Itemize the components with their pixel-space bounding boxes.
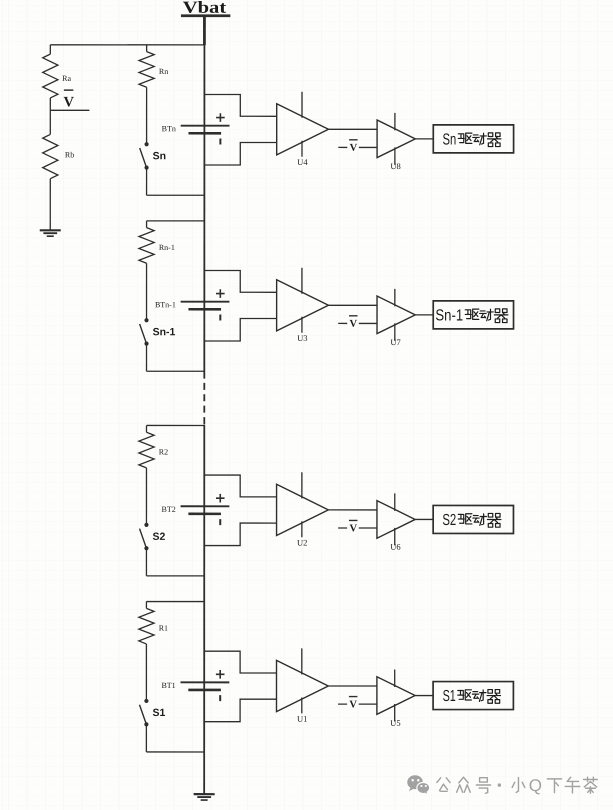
battery BT1 positive plate: [181, 681, 230, 683]
svg-text:V: V: [349, 700, 357, 711]
wire: switch S1 to bottom branch: [145, 724, 147, 752]
svg-text:U2: U2: [297, 537, 307, 547]
battery BTn-1 positive plate: [181, 301, 230, 303]
svg-text:S2: S2: [442, 512, 456, 529]
comparator U7: [377, 296, 415, 334]
svg-text:R2: R2: [159, 448, 168, 457]
wire: U2 output to comparator U6: [328, 509, 377, 511]
wire: BTn-1 negative sense bracket: [204, 318, 276, 341]
driver box Sn-1 (drive circuit): [433, 301, 513, 329]
wire: BT2 negative sense bracket: [204, 523, 276, 546]
battery BTn-1 plus sign: [216, 293, 225, 295]
battery BT1 minus mark: [219, 695, 221, 701]
op-amp U4 positive supply pin: [301, 92, 303, 118]
svg-text:BT2: BT2: [162, 505, 176, 514]
wire: BT1 positive sense bracket: [204, 651, 276, 673]
wire: bus continuation (dashed, omitted cells): [203, 383, 205, 425]
op-amp U3 positive supply pin: [301, 268, 303, 294]
battery BTn-1 minus mark: [219, 314, 221, 320]
wire: Rn top stub: [146, 45, 148, 52]
wire: Rb to ground: [49, 179, 51, 231]
svg-text:U5: U5: [390, 718, 400, 728]
resistor Ra: [43, 54, 58, 98]
svg-text:S2: S2: [153, 531, 166, 543]
switch Sn bottom contact: [144, 166, 148, 170]
battery BTn-1 negative plate: [188, 308, 221, 311]
wire: top rail from divider to bus: [50, 44, 204, 46]
ground (divider): [40, 229, 61, 231]
switch Sn top contact: [144, 142, 148, 146]
battery BTn minus mark: [219, 138, 221, 144]
resistor R2: [139, 432, 154, 468]
wire: row Sn-1 top branch: [147, 220, 205, 222]
resistor Rn-1: [139, 228, 154, 264]
watermark wechat icon: [407, 775, 429, 795]
svg-text:V: V: [350, 143, 358, 154]
comparator U8: [377, 120, 415, 158]
op-amp U1 negative supply pin: [301, 697, 303, 713]
svg-text:U8: U8: [390, 161, 400, 171]
op-amp U1 positive supply pin: [301, 648, 303, 674]
node V-bar reference into U8: [338, 146, 347, 148]
svg-text:V: V: [350, 319, 358, 330]
wire: switch Sn-1 to bottom branch: [146, 344, 148, 372]
svg-text:V: V: [349, 523, 357, 534]
wire: switch S2 to bottom branch: [145, 548, 147, 576]
battery BT2 positive plate: [181, 505, 230, 507]
svg-text:BT1: BT1: [161, 681, 175, 690]
svg-text:Sn-1: Sn-1: [435, 307, 463, 324]
svg-text:Sn-1: Sn-1: [153, 326, 176, 338]
svg-text:BTn-1: BTn-1: [155, 300, 176, 309]
battery BT1 negative plate: [188, 689, 221, 692]
comparator U7 negative supply pin: [394, 323, 396, 341]
svg-text:V: V: [63, 94, 74, 110]
power rail Vbat bar: [181, 14, 230, 17]
svg-text:S1: S1: [443, 688, 456, 705]
wire: Rn to switch Sn: [146, 87, 148, 144]
wire: row S1 bottom branch: [146, 751, 204, 753]
switch Sn-1 blade: [140, 324, 147, 343]
comparator U6: [377, 501, 415, 539]
svg-text:Rn: Rn: [159, 67, 168, 76]
svg-text:BTn: BTn: [162, 124, 176, 133]
wire: main battery-stack bus (Vbat to row Sn-1 bottom): [203, 16, 206, 45]
resistor Rn: [139, 52, 154, 88]
comparator U7 positive supply pin: [394, 289, 396, 307]
op-amp U2 positive supply pin: [301, 472, 303, 498]
wire: BT2 positive sense bracket: [204, 475, 276, 497]
svg-text:S1: S1: [152, 707, 165, 719]
wire: Ra to Rb junction: [49, 98, 51, 135]
switch S1 blade: [139, 705, 146, 724]
resistor Rb: [43, 134, 58, 178]
battery BT2 negative plate: [188, 513, 221, 516]
wire: switch Sn to bottom branch: [146, 168, 148, 196]
wire: Rn-1 top stub: [146, 221, 148, 228]
comparator U8 positive supply pin: [394, 113, 396, 131]
driver box Sn (drive circuit): [433, 125, 513, 153]
comparator U8 negative supply pin: [394, 147, 396, 165]
node V-bar reference into U6: [338, 527, 347, 529]
wire: row S2 bottom branch: [146, 575, 204, 577]
watermark text: [437, 778, 450, 791]
ground (battery stack): [194, 793, 215, 795]
comparator U6 positive supply pin: [394, 493, 396, 511]
switch Sn blade: [140, 148, 147, 167]
svg-text:Sn: Sn: [442, 131, 456, 148]
switch S2 bottom contact: [144, 546, 148, 550]
battery BT1 plus sign: [216, 673, 225, 675]
node V-bar reference into U7: [338, 322, 347, 324]
svg-text:Ra: Ra: [62, 74, 71, 83]
label V-bar (sense voltage): [64, 89, 73, 91]
svg-text:Rn-1: Rn-1: [159, 243, 175, 252]
wire: BTn-1 positive sense bracket: [204, 270, 276, 292]
wire: R1 top stub: [145, 602, 147, 609]
switch S1 bottom contact: [144, 722, 148, 726]
wire: R2 top stub: [145, 425, 147, 432]
wire: U1 output to comparator U5: [328, 685, 377, 687]
battery BT2 plus sign: [216, 497, 225, 499]
op-amp U3: [277, 280, 329, 331]
comparator U6 negative supply pin: [394, 528, 396, 546]
svg-text:U1: U1: [297, 714, 307, 724]
svg-text:Rb: Rb: [65, 150, 74, 159]
wire: R1 to switch S1: [145, 644, 147, 701]
resistor R1: [139, 608, 154, 644]
battery BT2 minus mark: [219, 519, 221, 525]
switch S2 blade: [140, 529, 147, 548]
driver box S2 (drive circuit): [433, 505, 513, 533]
op-amp U4 negative supply pin: [301, 141, 303, 157]
wire: row Sn bottom branch: [147, 194, 205, 196]
op-amp U2 negative supply pin: [301, 521, 303, 537]
comparator U5: [377, 677, 415, 715]
node V-sense tap wire: [50, 109, 89, 111]
svg-text:U6: U6: [390, 542, 400, 552]
wire: U5 output to driver box: [415, 695, 433, 697]
switch S1 top contact: [144, 699, 148, 703]
wire: Rn-1 to switch Sn-1: [146, 263, 148, 320]
svg-text:R1: R1: [159, 624, 168, 633]
wire: R2 to switch S2: [145, 468, 147, 525]
wire: row S1 top branch: [146, 601, 204, 603]
battery BTn plus sign: [216, 117, 225, 119]
op-amp U4: [277, 104, 329, 155]
wire: row S2 top branch: [146, 424, 204, 426]
wire: U4 output to comparator U8: [328, 128, 377, 130]
battery BTn positive plate: [181, 125, 230, 127]
op-amp U2: [277, 484, 329, 535]
svg-text:Vbat: Vbat: [183, 0, 227, 17]
wire: row Sn-1 bottom branch: [147, 370, 205, 372]
wire: U3 output to comparator U7: [328, 304, 377, 306]
wire: divider drop to Ra: [49, 45, 51, 54]
switch S2 top contact: [144, 523, 148, 527]
wire: BTn positive sense bracket: [204, 94, 276, 116]
comparator U5 negative supply pin: [394, 704, 396, 722]
comparator U5 positive supply pin: [394, 670, 396, 688]
svg-text:U3: U3: [297, 333, 307, 343]
switch Sn-1 bottom contact: [144, 342, 148, 346]
wire: main battery-stack bus (row S2 to ground): [203, 425, 205, 795]
wire: U8 output to driver box: [415, 138, 433, 140]
wire: BT1 negative sense bracket: [204, 699, 276, 722]
switch Sn-1 top contact: [144, 318, 148, 322]
op-amp U1: [276, 660, 328, 711]
svg-text:Sn: Sn: [153, 150, 166, 162]
driver box S1 (drive circuit): [433, 682, 513, 710]
svg-text:U4: U4: [297, 157, 308, 167]
wire: U7 output to driver box: [415, 314, 433, 316]
svg-text:Q: Q: [529, 776, 542, 795]
battery BTn negative plate: [188, 132, 221, 135]
wire: U6 output to driver box: [415, 518, 433, 520]
node V-bar reference into U5: [338, 703, 347, 705]
svg-text:U7: U7: [390, 337, 400, 347]
wire: BTn negative sense bracket: [204, 142, 276, 165]
op-amp U3 negative supply pin: [301, 317, 303, 333]
